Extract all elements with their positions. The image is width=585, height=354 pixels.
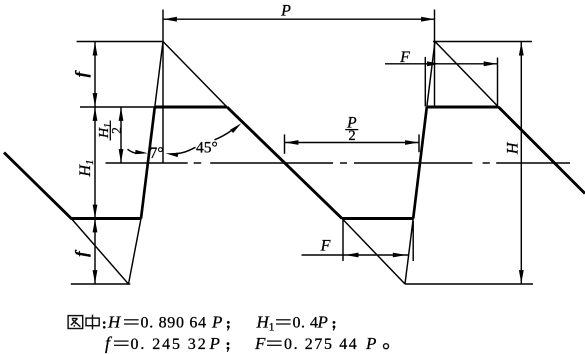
arrowhead lower F right (393, 253, 407, 258)
svg-text:P: P (365, 334, 376, 353)
svg-text:H1: H1 (77, 159, 96, 177)
profile: tooth1 crest flat (thick) (155, 106, 227, 109)
svg-text:f: f (105, 333, 113, 353)
extension line: P/2 right (on steep flank at pitch line) (418, 134, 420, 152)
middle sharp root thin extension (steep side) (405, 219, 413, 285)
profile: tooth1 45-deg flank (thick) (227, 107, 342, 219)
note line 2: full stop circle (384, 344, 389, 349)
extension line: upper F left (424, 57, 426, 107)
svg-text:H: H (107, 313, 122, 332)
dimension line upper F (385, 63, 498, 65)
svg-text:f: f (72, 69, 91, 77)
profile: left root flat (thick) (71, 217, 142, 220)
leader for 7-deg angle label (128, 149, 138, 153)
arrowhead P right (421, 17, 435, 22)
arrowhead P/2 left (285, 140, 299, 145)
extension line: sharp root level, bottom left (71, 283, 131, 285)
dimension line stack f / H1 / f at x=95 (94, 42, 96, 285)
svg-text:P: P (317, 313, 328, 332)
svg-text:0. 890 64: 0. 890 64 (141, 315, 207, 332)
svg-text:2: 2 (109, 127, 124, 134)
arrowhead f upper bottom (93, 93, 98, 107)
note text line 1: CJK "tu" character (68, 316, 83, 329)
dimension line lower F (302, 254, 409, 256)
arrowhead upper F right (484, 61, 498, 66)
sharp crest apex2 thin extension (45 side) (435, 42, 499, 108)
dimension line P (163, 18, 435, 20)
label H1 (rotated) (77, 159, 96, 177)
left sharp root thin extension (steep side) (129, 219, 142, 285)
svg-text:7°: 7° (150, 145, 164, 162)
extension line: vertical from apex2 up to P dimension (434, 10, 436, 108)
svg-text:F: F (399, 49, 410, 66)
dimension line P/2 (285, 142, 420, 144)
svg-text:P: P (211, 313, 222, 332)
extension line: upper F right (497, 58, 499, 107)
profile: tooth2 crest flat (thick) (427, 106, 499, 109)
arrowhead f lower top (93, 219, 98, 233)
extension line: lower F right (412, 221, 414, 261)
arrowhead f upper top (93, 42, 98, 56)
leader for 45-deg label, right arrow to flank (215, 131, 232, 140)
svg-text:45°: 45° (196, 139, 218, 156)
arrowhead H top (519, 42, 524, 56)
extension line: crest level, left (80, 106, 155, 108)
profile: tooth1 steep 7-deg flank (thick) (141, 107, 155, 219)
note line 1: first semicolon (227, 321, 230, 331)
svg-text:0. 4: 0. 4 (293, 315, 319, 332)
svg-text:0. 275 44: 0. 275 44 (284, 336, 358, 353)
extension line: sharp root level, right (for H) (405, 283, 533, 285)
arrowhead H1/2 bottom (119, 149, 124, 163)
svg-text:f: f (72, 249, 91, 257)
arrowhead H1/2 top (119, 107, 124, 121)
svg-text:F: F (254, 334, 266, 353)
svg-text:F: F (320, 237, 331, 254)
profile: middle root flat (thick) (342, 217, 413, 220)
svg-text:H1: H1 (256, 313, 275, 334)
svg-text:P: P (209, 334, 220, 353)
extension line: lower F left (342, 220, 344, 261)
arrowhead upper F left (points right, tip past flank) (427, 61, 441, 66)
arrowhead lower F left (345, 253, 359, 258)
dimension line H1/2 (120, 107, 122, 163)
arrowhead H bottom (519, 270, 524, 284)
arrowhead P/2 right (405, 140, 419, 145)
sharp crest apex1 thin extension (steep side) (155, 42, 163, 108)
arrowhead H1 top (93, 107, 98, 121)
profile: tooth2 steep 7-deg flank (thick) (413, 107, 427, 219)
label H1/2 fraction (rotated) (97, 121, 124, 141)
svg-text:2: 2 (348, 128, 355, 144)
arrowhead f lower bottom (93, 270, 98, 284)
extension line: apex level, left (77, 41, 163, 43)
sharp crest apex1 thin extension (45 side) (163, 42, 227, 108)
dimension line H (520, 42, 522, 285)
left sharp root thin extension (45 side) (71, 219, 128, 285)
sharp crest apex2 thin extension (steep side) (427, 42, 435, 108)
profile: tooth2 45-deg flank (thick) (499, 107, 585, 194)
leader for 45-deg label, left arrow to vertical line (176, 147, 196, 153)
svg-text:0. 245 32: 0. 245 32 (131, 336, 208, 353)
middle sharp root thin extension (45 side) (342, 219, 405, 285)
extension line: vertical from apex1 up to P dimension and down to centerline (162, 10, 164, 164)
profile: left 45-deg flank (thick) (4, 153, 71, 219)
note text line 1: CJK "zhong" character (86, 315, 99, 330)
extension line: P/2 left (on 45-deg flank at pitch line) (284, 134, 286, 153)
svg-text:P: P (280, 3, 291, 20)
svg-text:H: H (504, 141, 521, 155)
extension line: apex level, right (for H) (433, 41, 532, 43)
arrowhead H1 bottom (93, 205, 98, 219)
centerline (pitch line) dash-dot segments (106, 162, 571, 164)
note text line 1: colon (103, 321, 106, 328)
arrowhead P left (163, 17, 177, 22)
